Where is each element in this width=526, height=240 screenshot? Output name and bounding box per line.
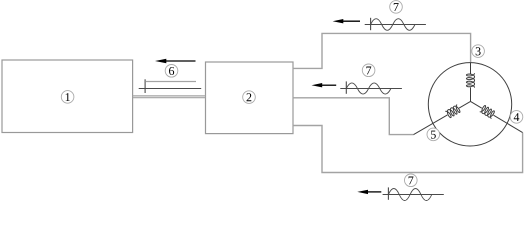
wire: block2 bottom output to motor phase 4 [293, 126, 523, 173]
DC waveform symbol W6 [139, 79, 202, 93]
wire: block2 top output to motor phase 3 [293, 33, 471, 68]
arrow A7c (bottom, power flow left) [357, 190, 381, 194]
block U1 (machine 1) [2, 60, 133, 133]
wire: block2 middle output to motor phase 5 [293, 98, 414, 135]
winding coil L3 (top phase) [466, 62, 474, 101]
label 7 middle [362, 64, 375, 77]
label 1 [61, 91, 74, 104]
shaft coupling (double line) [133, 96, 206, 98]
label 2 [243, 91, 256, 104]
label 4 [510, 111, 523, 124]
label 7 top [390, 1, 403, 14]
winding coil L4 (right phase) + lead [471, 101, 523, 132]
label 5 [427, 128, 440, 141]
label 7 bottom [405, 174, 418, 187]
motor stator circle M1 [428, 63, 511, 146]
winding coil L5 (left phase) + lead [414, 101, 471, 134]
AC waveform symbol W7a (top) [365, 18, 426, 30]
label 3 [472, 45, 485, 58]
AC waveform symbol W7c (bottom) [383, 187, 444, 200]
arrow A7a (top, power flow left) [333, 19, 360, 23]
arrow A7b (middle, power flow left) [312, 83, 337, 87]
AC waveform symbol W7b (middle) [340, 81, 402, 94]
block U2 (machine 2) [206, 62, 294, 134]
arrow A6 (power flow left) [155, 59, 196, 64]
label 6 [165, 65, 178, 78]
